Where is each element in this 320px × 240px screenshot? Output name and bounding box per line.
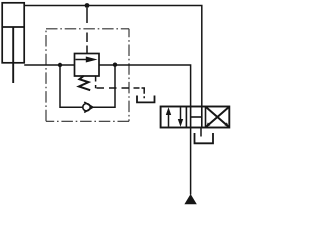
left position: down arrow (180, 108, 182, 125)
enclosure boundary (dash-dot box) (46, 28, 129, 30)
tank symbol at directional valve (195, 133, 214, 143)
node: pilot tap on top line (85, 3, 90, 8)
directional valve DV1 outer body (161, 107, 230, 128)
center position: H crossbar (191, 116, 202, 118)
wire: port T stub to tank (200, 128, 202, 137)
directional valve box divider 2 (205, 107, 207, 128)
pilot line (dashed) from node to relief valve top (86, 8, 88, 54)
check valve CV1: seat (84, 102, 93, 112)
check valve CV1: ball (83, 104, 90, 111)
node B: check-valve branch right junction (113, 62, 117, 66)
cylinder body (2, 3, 24, 63)
wire: cylinder top port to directional valve port B (24, 6, 202, 107)
wire: check valve bypass loop (60, 65, 115, 108)
right position: crossed arrows (206, 107, 228, 127)
relief valve flow arrow (76, 59, 89, 61)
relief valve drain line (dashed) (96, 76, 145, 98)
left position: up arrow (168, 110, 170, 127)
center position: H (open center) vertical 1 (190, 107, 192, 128)
wire: relief valve outlet to directional valve port A (99, 65, 191, 107)
relief valve spring (79, 76, 90, 90)
wire: port P down to pressure source (190, 128, 192, 195)
center position: H vertical 2 (201, 107, 203, 128)
pressure source (filled triangle) (184, 194, 196, 204)
wire: cylinder bottom port to relief valve inlet (24, 64, 74, 66)
cylinder piston (2, 26, 24, 28)
directional valve box divider 1 (185, 107, 187, 128)
relief valve V1 body (75, 54, 100, 77)
cylinder rod (12, 27, 14, 83)
pilot drain tank symbol (137, 96, 155, 103)
node A: check-valve branch left junction (58, 63, 62, 67)
